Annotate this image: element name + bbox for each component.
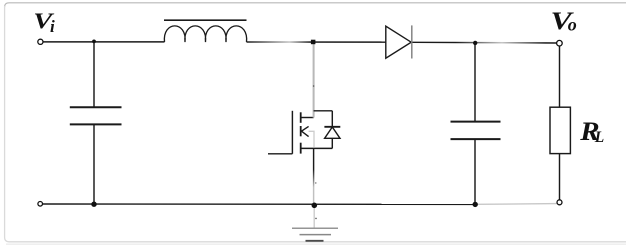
svg-text:o: o xyxy=(568,15,577,35)
svg-text:i: i xyxy=(50,17,55,36)
svg-text:L: L xyxy=(594,129,604,146)
